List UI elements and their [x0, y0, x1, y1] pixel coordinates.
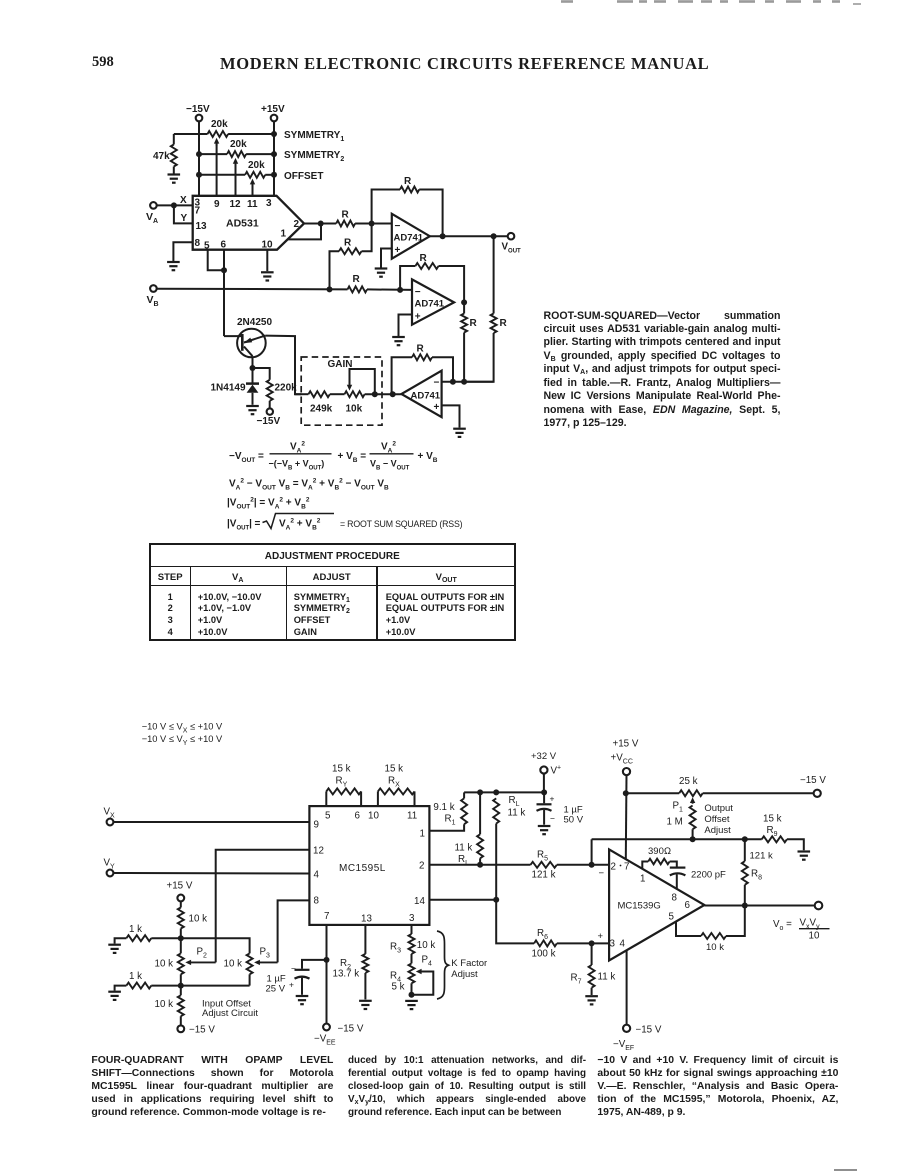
- svg-text:25 k: 25 k: [679, 776, 698, 787]
- svg-text:−10 V ≤ VX ≤ +10 V: −10 V ≤ VX ≤ +10 V: [142, 722, 223, 735]
- svg-text:11 k: 11 k: [508, 808, 526, 819]
- resistor RY 15k: [326, 764, 361, 807]
- svg-text:−15 V: −15 V: [189, 1025, 215, 1036]
- ground U3 plus: [392, 337, 405, 345]
- pin label 8: [314, 896, 320, 907]
- svg-text:AD741: AD741: [394, 233, 424, 244]
- ground 1k upper: [108, 945, 121, 953]
- svg-text:+ VB: + VB: [418, 451, 438, 464]
- svg-text:2: 2: [294, 219, 300, 230]
- svg-text:P1: P1: [673, 801, 684, 814]
- svg-text:10 k: 10 k: [155, 959, 174, 970]
- wire base node down: [223, 270, 225, 336]
- svg-text:121 k: 121 k: [532, 870, 556, 881]
- svg-text:Adjust: Adjust: [704, 825, 731, 836]
- junction U3 inverting node: [397, 287, 403, 293]
- label plus input: [598, 931, 604, 942]
- pin label 13: [196, 221, 208, 232]
- svg-text:V+: V+: [551, 764, 562, 777]
- pin label 7: [195, 206, 201, 217]
- pin label 1: [281, 229, 287, 240]
- wire pin14 down to R6: [496, 900, 534, 944]
- svg-text:−10 V ≤ VY ≤ +10 V: −10 V ≤ VY ≤ +10 V: [142, 734, 223, 747]
- wire top node to P3: [181, 938, 250, 953]
- wire collector down: [252, 356, 254, 368]
- terminal -15V supply (top left): [186, 104, 210, 121]
- node label SYMMETRY2: [284, 150, 344, 163]
- wire VEE down: [626, 950, 628, 1024]
- junction row3/-15V: [196, 172, 202, 178]
- svg-text:6: 6: [355, 811, 361, 822]
- svg-text:12: 12: [230, 199, 242, 210]
- svg-text:−: −: [550, 814, 555, 824]
- svg-text:20k: 20k: [230, 139, 247, 150]
- svg-text:+15 V: +15 V: [613, 739, 639, 750]
- svg-text:15 k: 15 k: [763, 814, 782, 825]
- svg-text:7: 7: [624, 862, 629, 873]
- svg-text:VX: VX: [104, 807, 116, 820]
- resistor R5 121k: [531, 850, 610, 881]
- svg-text:R: R: [353, 274, 361, 285]
- scanner artifact bar bottom right: [834, 1169, 857, 1171]
- svg-text:+15 V: +15 V: [167, 881, 193, 892]
- svg-text:+VCC: +VCC: [611, 753, 633, 766]
- svg-text:−VOUT =: −VOUT =: [229, 451, 264, 464]
- wire VX to pin 9: [113, 821, 309, 823]
- pin label 3 (top-right): [266, 198, 272, 209]
- wire pin1 loop: [288, 224, 321, 240]
- multiplier U1 AD531 body: [193, 196, 304, 250]
- svg-text:5: 5: [669, 912, 675, 923]
- pin label 1: [420, 829, 425, 840]
- pin label 12: [230, 199, 242, 210]
- svg-text:11: 11: [407, 811, 417, 822]
- potentiometer P4 5k: [390, 954, 432, 995]
- svg-text:|VOUT|: |VOUT|: [227, 519, 252, 532]
- resistor R (feedback U4): [392, 344, 453, 395]
- ground R7: [585, 996, 598, 1004]
- svg-text:R3: R3: [390, 942, 401, 955]
- svg-text:VY: VY: [104, 858, 116, 871]
- svg-text:2N4250: 2N4250: [237, 317, 272, 328]
- svg-text:R9: R9: [767, 825, 778, 838]
- svg-text:OFFSET: OFFSET: [284, 171, 323, 182]
- label minus input: [599, 868, 605, 879]
- wire pin 7 down: [326, 925, 328, 1024]
- op-amp U3 AD741: [412, 279, 454, 324]
- svg-text:+: +: [598, 931, 604, 942]
- pin label 6: [685, 900, 691, 911]
- trimpot wiper SYMMETRY1 to pin 9: [214, 138, 219, 196]
- wire OFFSET row: [199, 174, 274, 176]
- equation line 2: [229, 477, 389, 491]
- svg-text:X: X: [180, 195, 187, 206]
- svg-text:10 k: 10 k: [224, 959, 243, 970]
- pin label 7 (bottom): [324, 911, 329, 922]
- pin label 3 (bottom): [409, 913, 415, 924]
- resistor R7 11k: [571, 943, 616, 995]
- wire SYMMETRY2 row: [199, 153, 274, 155]
- wire U3 plus to ground: [399, 315, 413, 337]
- wire VCC down to opamp: [625, 775, 628, 859]
- wiper P4: [412, 969, 434, 995]
- terminal VB input: [147, 285, 159, 307]
- resistor R (feedback U3): [400, 253, 464, 302]
- junction VB/R node: [327, 286, 333, 292]
- pin label 1: [640, 874, 645, 885]
- wire 47k to ground: [173, 167, 175, 175]
- svg-text:390Ω: 390Ω: [648, 846, 671, 857]
- svg-text:+: +: [395, 245, 401, 256]
- pin label 9: [214, 199, 220, 210]
- svg-text:+: +: [289, 980, 294, 990]
- svg-text:= ROOT SUM SQUARED (RSS): = ROOT SUM SQUARED (RSS): [340, 519, 463, 529]
- op-amp U6 MC1539G: [609, 849, 704, 960]
- svg-text:R: R: [404, 176, 412, 187]
- pin label 5: [204, 241, 210, 252]
- svg-text:Y: Y: [181, 213, 188, 224]
- label output offset adjust: [704, 803, 733, 836]
- svg-text:Output: Output: [704, 803, 733, 814]
- junction collector node: [250, 365, 256, 371]
- junction VOUT node: [491, 233, 497, 239]
- svg-text:R: R: [420, 253, 428, 264]
- svg-text:−15V: −15V: [257, 416, 281, 427]
- wire emitter to gain network: [265, 336, 301, 395]
- equation line 4 with radical: [227, 514, 463, 532]
- pin label 2: [419, 861, 424, 872]
- svg-text:−15 V: −15 V: [338, 1024, 364, 1035]
- ground below 47k: [168, 175, 181, 183]
- svg-text:2: 2: [611, 862, 616, 873]
- svg-text:4: 4: [620, 939, 626, 950]
- svg-text:SYMMETRY2: SYMMETRY2: [284, 150, 344, 163]
- terminal VY input: [104, 858, 116, 877]
- svg-text:6: 6: [685, 900, 691, 911]
- wire U2 output: [430, 235, 508, 237]
- svg-text:VA2: VA2: [381, 440, 396, 454]
- scanner artifact dashes top edge: [0, 0, 897, 8]
- resistor 220k: [253, 368, 298, 408]
- svg-text:MC1539G: MC1539G: [618, 901, 661, 912]
- pin label 4: [314, 870, 320, 881]
- pin label 5: [325, 811, 331, 822]
- junction row2/-15V: [196, 151, 202, 157]
- op-amp U2 AD741: [392, 214, 430, 259]
- resistor R8 121k: [742, 839, 773, 905]
- svg-text:10k: 10k: [346, 404, 363, 415]
- svg-text:25 V: 25 V: [266, 984, 286, 995]
- wire U4 plus to ground: [442, 405, 460, 427]
- svg-text:10: 10: [262, 240, 274, 251]
- wire output line: [704, 905, 814, 907]
- svg-text:RX: RX: [388, 776, 400, 789]
- wire pin8 to ground: [173, 242, 192, 261]
- bottom caption column 2: [348, 1054, 586, 1119]
- junction P1/offset line: [690, 836, 696, 842]
- junction U4 minus/feedback: [450, 379, 456, 385]
- svg-text:12: 12: [313, 846, 324, 857]
- svg-text:VA2 − VOUT VB = VA2 + VB2 − VO: VA2 − VOUT VB = VA2 + VB2 − VOUT VB: [229, 477, 389, 491]
- node label OFFSET: [284, 171, 323, 182]
- svg-text:P4: P4: [422, 955, 433, 968]
- svg-text:−: −: [291, 964, 296, 974]
- capacitor 2200pF: [670, 868, 726, 890]
- junction U4 minus/R: [461, 379, 467, 385]
- svg-text:K Factor: K Factor: [451, 958, 487, 969]
- svg-text:R8: R8: [751, 869, 762, 882]
- svg-text:15 k: 15 k: [332, 764, 351, 775]
- svg-text:−VEF: −VEF: [613, 1039, 634, 1052]
- terminal Vo output: [815, 902, 823, 910]
- svg-text:VA: VA: [146, 211, 158, 225]
- svg-text:Adjust Circuit: Adjust Circuit: [202, 1008, 258, 1019]
- svg-text:1 M: 1 M: [667, 817, 683, 828]
- svg-text:121 k: 121 k: [750, 851, 773, 862]
- terminal +15V supply: [261, 104, 285, 121]
- ground 1k lower: [108, 992, 121, 1000]
- svg-text:−15 V: −15 V: [800, 775, 826, 786]
- wiper P3: [254, 960, 278, 965]
- resistor RL 11k (right): [493, 795, 525, 900]
- svg-text:+ VB =: + VB =: [338, 451, 367, 464]
- wire V+ rail: [464, 791, 544, 793]
- svg-text:VB − VOUT: VB − VOUT: [370, 459, 410, 472]
- svg-text:10 k: 10 k: [189, 914, 208, 925]
- ground R4: [405, 1001, 418, 1009]
- ground R2: [359, 1001, 372, 1009]
- equation line 3: [227, 496, 310, 510]
- svg-text:15 k: 15 k: [385, 764, 404, 775]
- svg-text:220k: 220k: [275, 383, 298, 394]
- resistor 10k (lower): [155, 986, 184, 1026]
- svg-text:MC1595L: MC1595L: [339, 863, 386, 874]
- svg-text:P3: P3: [260, 947, 271, 960]
- wire pin 12 to P2 wiper: [216, 850, 310, 963]
- svg-text:20k: 20k: [211, 119, 228, 130]
- resistor R (VOUT to U4 minus): [464, 236, 507, 382]
- svg-text:7: 7: [195, 206, 201, 217]
- svg-text:R5: R5: [537, 850, 548, 863]
- svg-text:1 k: 1 k: [129, 971, 142, 982]
- junction rail/V+: [541, 789, 547, 795]
- ground below diode: [246, 406, 259, 414]
- potentiometer 10k (gain): [330, 391, 402, 414]
- svg-text:Vo =: Vo =: [773, 919, 792, 932]
- junction R6/R7: [589, 940, 595, 946]
- svg-text:3: 3: [266, 198, 272, 209]
- pin label 3: [610, 939, 616, 950]
- wire VA to X input: [156, 195, 192, 206]
- resistor R3 10k: [390, 925, 435, 954]
- wire U4 minus line: [442, 381, 494, 383]
- wire pin 8 to P3 wiper: [278, 900, 310, 962]
- svg-text:R: R: [417, 344, 425, 355]
- junction feedback/output U2: [440, 233, 446, 239]
- pin label 11: [407, 811, 417, 822]
- svg-text:=: =: [255, 519, 261, 530]
- wire +15V rail down to AD531 pin 3: [273, 121, 275, 196]
- resistor R (U3 out to U4 minus): [461, 302, 477, 381]
- junction P4 bottom: [409, 992, 415, 998]
- ground pin8: [167, 262, 180, 270]
- svg-text:−15V: −15V: [186, 104, 210, 115]
- terminal -15V (offset net): [177, 1025, 215, 1036]
- resistor R (VB to U3 minus): [348, 274, 413, 292]
- resistor 25k: [679, 776, 703, 796]
- junction row3/+15V: [271, 172, 277, 178]
- terminal +15V (offset net): [167, 881, 193, 902]
- svg-text:SYMMETRY1: SYMMETRY1: [284, 130, 344, 143]
- terminal -15V (VEE opamp): [613, 1025, 662, 1052]
- svg-text:−VEE: −VEE: [314, 1034, 336, 1047]
- junction wiper/line: [372, 391, 378, 397]
- resistor R (input of U2): [321, 210, 372, 227]
- dashed box GAIN: [301, 357, 382, 425]
- wire VB line: [156, 288, 347, 291]
- svg-text:11: 11: [247, 199, 258, 210]
- svg-text:1: 1: [420, 829, 425, 840]
- svg-text:VA2: VA2: [290, 440, 305, 454]
- svg-text:11 k: 11 k: [455, 843, 473, 854]
- terminal -15V (offset pot): [800, 775, 826, 797]
- terminal V+ 32V: [531, 751, 561, 792]
- trimpot wiper SYMMETRY2 to pin 12: [233, 158, 238, 196]
- svg-text:9.1 k: 9.1 k: [433, 802, 454, 813]
- right paragraph: ROOT-SUM-SQUARED caption: [544, 310, 781, 431]
- junction output/10k: [742, 903, 748, 909]
- svg-text:RY: RY: [336, 776, 348, 789]
- pin label 6: [221, 240, 227, 251]
- svg-text:R: R: [344, 238, 352, 249]
- junction U3 output: [461, 299, 467, 305]
- junction RL/pin2: [477, 862, 483, 868]
- svg-text:1: 1: [281, 229, 287, 240]
- junction U2 inverting node: [369, 221, 375, 227]
- label Vo equation: [773, 918, 830, 942]
- svg-text:8: 8: [314, 896, 320, 907]
- junction pins 5-6: [221, 267, 227, 273]
- svg-text:249k: 249k: [310, 404, 333, 415]
- svg-text:VB: VB: [147, 294, 159, 308]
- ground cap 50V: [538, 826, 551, 834]
- svg-text:AD741: AD741: [415, 299, 445, 310]
- svg-text:−: −: [415, 287, 421, 298]
- pin label 6: [355, 811, 361, 822]
- potentiometer P2 10k: [155, 938, 208, 985]
- terminal VOUT: [502, 233, 522, 254]
- svg-text:2200 pF: 2200 pF: [691, 870, 726, 881]
- pin label 12: [313, 846, 324, 857]
- ground U2 plus: [375, 269, 388, 277]
- pin label 2: [294, 219, 300, 230]
- svg-text:−15 V: −15 V: [636, 1025, 662, 1036]
- svg-text:AD741: AD741: [411, 391, 441, 402]
- junction output node: [318, 221, 324, 227]
- svg-text:−: −: [599, 868, 605, 879]
- wire 25k line: [626, 792, 813, 794]
- brace K factor: [437, 931, 487, 999]
- multiplier U5 MC1595L body: [309, 806, 429, 925]
- wire -15V rail down to AD531 pin 3: [198, 121, 200, 196]
- wire pin2 output: [304, 223, 321, 225]
- svg-text:8: 8: [195, 238, 201, 249]
- resistor R6 100k: [532, 928, 610, 960]
- svg-text:+: +: [550, 794, 555, 804]
- svg-text:+32 V: +32 V: [531, 751, 557, 762]
- pin label 8: [672, 893, 678, 904]
- label Vx range: [142, 722, 223, 735]
- pin label 13 (bottom): [361, 914, 372, 925]
- resistor RX 15k: [378, 764, 415, 807]
- label input offset adjust: [202, 999, 258, 1020]
- svg-text:−: −: [434, 378, 440, 389]
- svg-text:R7: R7: [571, 973, 582, 986]
- svg-text:9: 9: [214, 199, 220, 210]
- svg-text:10 k: 10 k: [706, 942, 724, 953]
- svg-text:20k: 20k: [248, 160, 265, 171]
- terminal +VCC: [611, 739, 639, 776]
- label Vy range: [142, 734, 223, 747]
- resistor 20k OFFSET trimpot: [245, 160, 265, 178]
- ground U4 plus: [453, 429, 466, 437]
- svg-text:R: R: [500, 318, 508, 329]
- svg-text:13: 13: [196, 221, 208, 232]
- svg-text:5: 5: [325, 811, 331, 822]
- resistor 10k (upper): [178, 901, 207, 938]
- svg-text:+: +: [434, 402, 440, 413]
- junction offset bottom node: [178, 983, 184, 989]
- svg-text:1N4149: 1N4149: [211, 383, 246, 394]
- junction pin14/RL: [493, 897, 499, 903]
- trimpot wiper OFFSET to pin 11: [250, 179, 255, 196]
- resistor R2 13.7k: [333, 925, 369, 1000]
- pin label 5: [669, 912, 675, 923]
- wire pin 1: [429, 824, 464, 831]
- pin label 7: [620, 862, 630, 873]
- ground pin10: [261, 272, 274, 280]
- potentiometer P3 10k: [181, 947, 270, 986]
- junction rail/RL-left: [477, 789, 483, 795]
- junction offset top node: [178, 935, 184, 941]
- wiper P2: [185, 960, 215, 965]
- equation line 1: [229, 440, 438, 471]
- svg-text:Adjust: Adjust: [451, 969, 478, 980]
- svg-text:|VOUT2| = VA2 + VB2: |VOUT2| = VA2 + VB2: [227, 496, 310, 510]
- wire pin 2 line: [429, 864, 530, 866]
- svg-text:4: 4: [314, 870, 320, 881]
- wire SYMMETRY1 row: [174, 133, 274, 135]
- pin label 14: [414, 896, 425, 907]
- terminal VX input: [104, 807, 116, 826]
- transistor Q1 2N4250: [224, 317, 272, 357]
- resistor 249k: [295, 391, 333, 414]
- wire Y input loop: [174, 205, 193, 224]
- diode D1 1N4149: [211, 368, 260, 405]
- svg-text:Offset: Offset: [704, 814, 730, 825]
- svg-text:+15V: +15V: [261, 104, 285, 115]
- page header: [92, 54, 114, 71]
- wire pin 14 line: [429, 899, 496, 901]
- svg-text:5 k: 5 k: [392, 982, 405, 993]
- svg-text:11 k: 11 k: [598, 972, 616, 983]
- svg-text:R6: R6: [537, 928, 548, 941]
- resistor R (feedback U2): [372, 176, 443, 236]
- svg-text:VA2 + VB2: VA2 + VB2: [279, 517, 321, 531]
- svg-text:3: 3: [409, 913, 415, 924]
- wire to U2 minus: [372, 223, 392, 225]
- ground R9: [798, 852, 811, 860]
